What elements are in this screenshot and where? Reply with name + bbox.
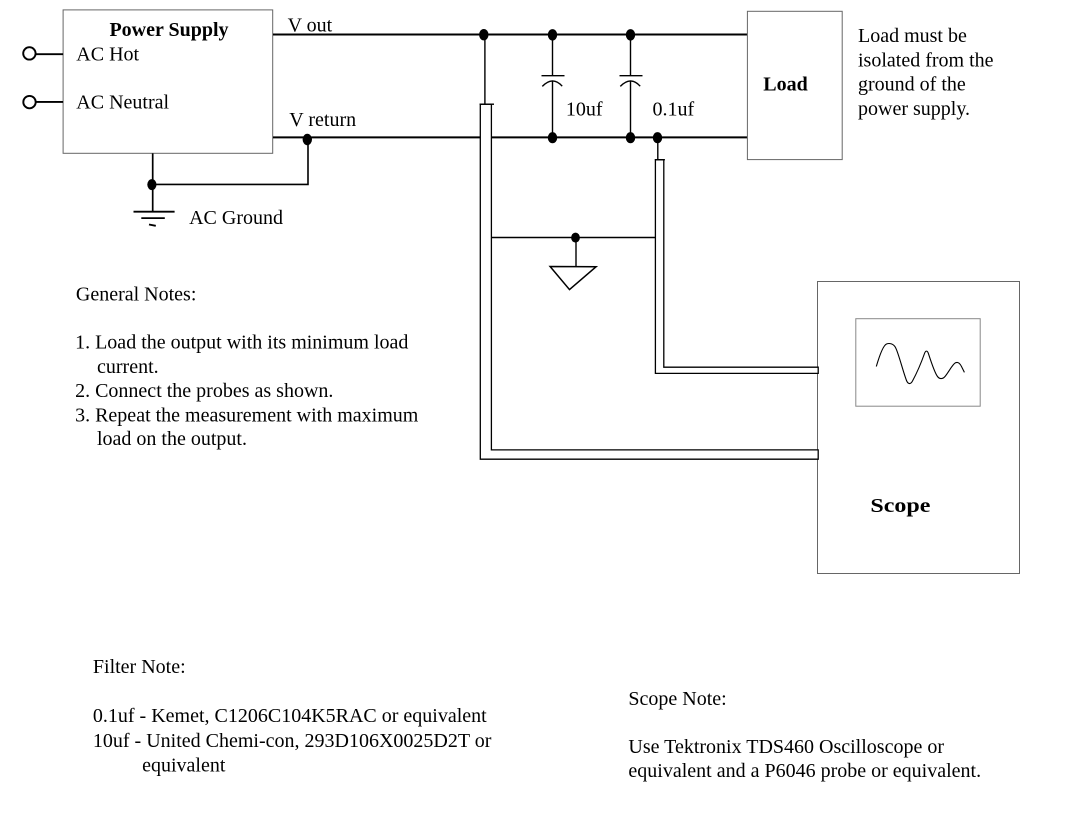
power supply box — [63, 10, 273, 153]
probe P1 tap wire from V out — [484, 35, 486, 105]
node junction dot on ground stem — [147, 179, 156, 190]
node dot V out at C1 — [548, 29, 557, 40]
svg-text:10uf: 10uf — [566, 98, 603, 120]
probe P2 coax cable to scope — [655, 160, 818, 374]
svg-text:Filter Note:0.1uf - Kemet, C12: Filter Note:0.1uf - Kemet, C1206C104K5RA… — [93, 656, 492, 777]
svg-text:V return: V return — [289, 109, 356, 131]
svg-text:AC Neutral: AC Neutral — [76, 91, 169, 113]
wire ground to V return — [152, 137, 308, 184]
scope box — [818, 282, 1020, 574]
scope screen — [856, 319, 980, 407]
wire V out — [273, 34, 748, 36]
terminal AC Neutral — [23, 96, 63, 108]
svg-text:V out: V out — [288, 14, 333, 36]
svg-text:General Notes:1. Load the outp: General Notes:1. Load the output with it… — [75, 283, 419, 450]
svg-text:Power Supply: Power Supply — [109, 19, 228, 41]
probe P2 tap wire from V return — [657, 137, 659, 159]
node dot V return at C1 — [548, 132, 557, 143]
svg-text:0.1uf: 0.1uf — [653, 98, 695, 120]
wire ground triangle stem — [575, 238, 577, 267]
svg-text:Scope: Scope — [870, 495, 930, 517]
wire AC ground stem — [152, 153, 154, 211]
svg-text:Scope Note:Use Tektronix TDS46: Scope Note:Use Tektronix TDS460 Oscillos… — [628, 688, 981, 782]
svg-text:Load must beisolated from theg: Load must beisolated from theground of t… — [858, 25, 994, 120]
node junction dot on probe ground link — [571, 233, 580, 243]
node dot V out at C2 — [626, 29, 635, 40]
load box — [747, 11, 842, 159]
node junction dot on V return at ground tie — [303, 134, 312, 145]
svg-text:AC Ground: AC Ground — [189, 207, 283, 229]
probe P1 coax cable to scope — [480, 104, 818, 459]
waveform trace — [876, 344, 964, 384]
capacitor C1 10uf — [542, 34, 565, 137]
wire V return — [273, 136, 748, 138]
ground triangle — [550, 267, 596, 290]
terminal AC Hot — [23, 47, 63, 59]
node dot V return at probe tap — [653, 132, 662, 143]
wire probe ground link — [491, 237, 655, 239]
svg-text:Load: Load — [763, 74, 807, 96]
svg-text:AC Hot: AC Hot — [76, 43, 139, 65]
earth ground symbol AC Ground — [134, 212, 175, 226]
capacitor C2 0.1uf — [620, 34, 643, 137]
node dot V return at C2 — [626, 132, 635, 143]
node dot V out at probe tap — [479, 29, 488, 40]
